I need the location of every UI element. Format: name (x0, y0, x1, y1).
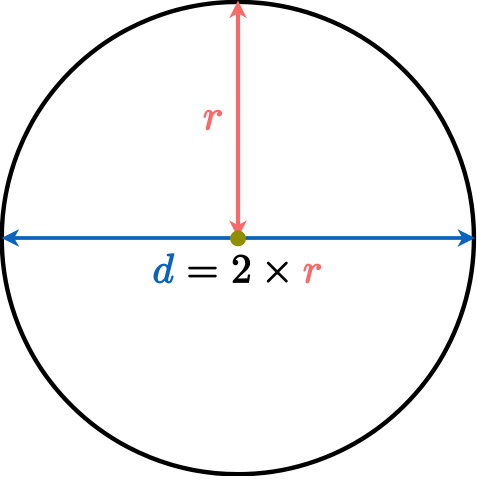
radius arrowhead top (229, 1, 247, 19)
radius line (red) (236, 13, 240, 226)
diameter arrowhead right (457, 229, 475, 247)
label d = 2 x r (154, 254, 321, 283)
center dot (230, 231, 246, 247)
radius arrowhead bottom (229, 220, 247, 238)
diameter arrowhead left (1, 229, 19, 247)
label r (radius) (204, 110, 222, 129)
diameter line (blue) (14, 236, 463, 240)
